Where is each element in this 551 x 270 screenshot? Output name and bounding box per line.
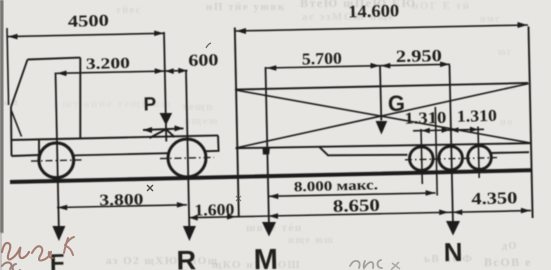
- svg-text:тйес: тйес: [116, 5, 142, 16]
- svg-text:8.000 макс.: 8.000 макс.: [294, 178, 378, 195]
- svg-text:4.350: 4.350: [471, 188, 517, 208]
- svg-text:3.200: 3.200: [86, 55, 131, 73]
- svg-text:600: 600: [188, 50, 218, 70]
- svg-text:юг: юг: [498, 47, 513, 58]
- svg-text:нще юш: нще юш: [288, 235, 334, 246]
- svg-text:R: R: [176, 245, 196, 270]
- svg-text:4500: 4500: [68, 11, 109, 31]
- svg-text:N: N: [443, 237, 462, 267]
- svg-text:F: F: [50, 250, 65, 270]
- svg-text:1.310: 1.310: [404, 108, 446, 128]
- svg-text:но: но: [500, 117, 514, 128]
- svg-text:1.600: 1.600: [194, 200, 234, 220]
- svg-text:нщею: нщею: [184, 115, 219, 127]
- svg-text:1.310: 1.310: [457, 106, 497, 126]
- svg-text:G: G: [388, 91, 406, 116]
- svg-text:дО: дО: [502, 241, 518, 252]
- svg-text:аз О2 щХЮх нОщ: аз О2 щХЮх нОщ: [106, 255, 219, 267]
- svg-text:нП тйе уювк: нП тйе уювк: [206, 1, 286, 13]
- svg-text:3.800: 3.800: [99, 191, 143, 209]
- svg-text:2.950: 2.950: [396, 46, 442, 66]
- svg-text:ВсОВ е: ВсОВ е: [484, 255, 532, 269]
- svg-text:5.700: 5.700: [302, 49, 342, 69]
- svg-text:ып: ып: [1, 96, 19, 108]
- svg-text:14.600: 14.600: [348, 0, 400, 21]
- svg-text:P: P: [143, 94, 156, 115]
- svg-text:M: M: [253, 244, 278, 270]
- svg-text:ямс: ямс: [480, 14, 501, 25]
- svg-text:8.650: 8.650: [333, 195, 381, 216]
- svg-text:нОГ Е тй: нОГ Е тй: [412, 0, 470, 12]
